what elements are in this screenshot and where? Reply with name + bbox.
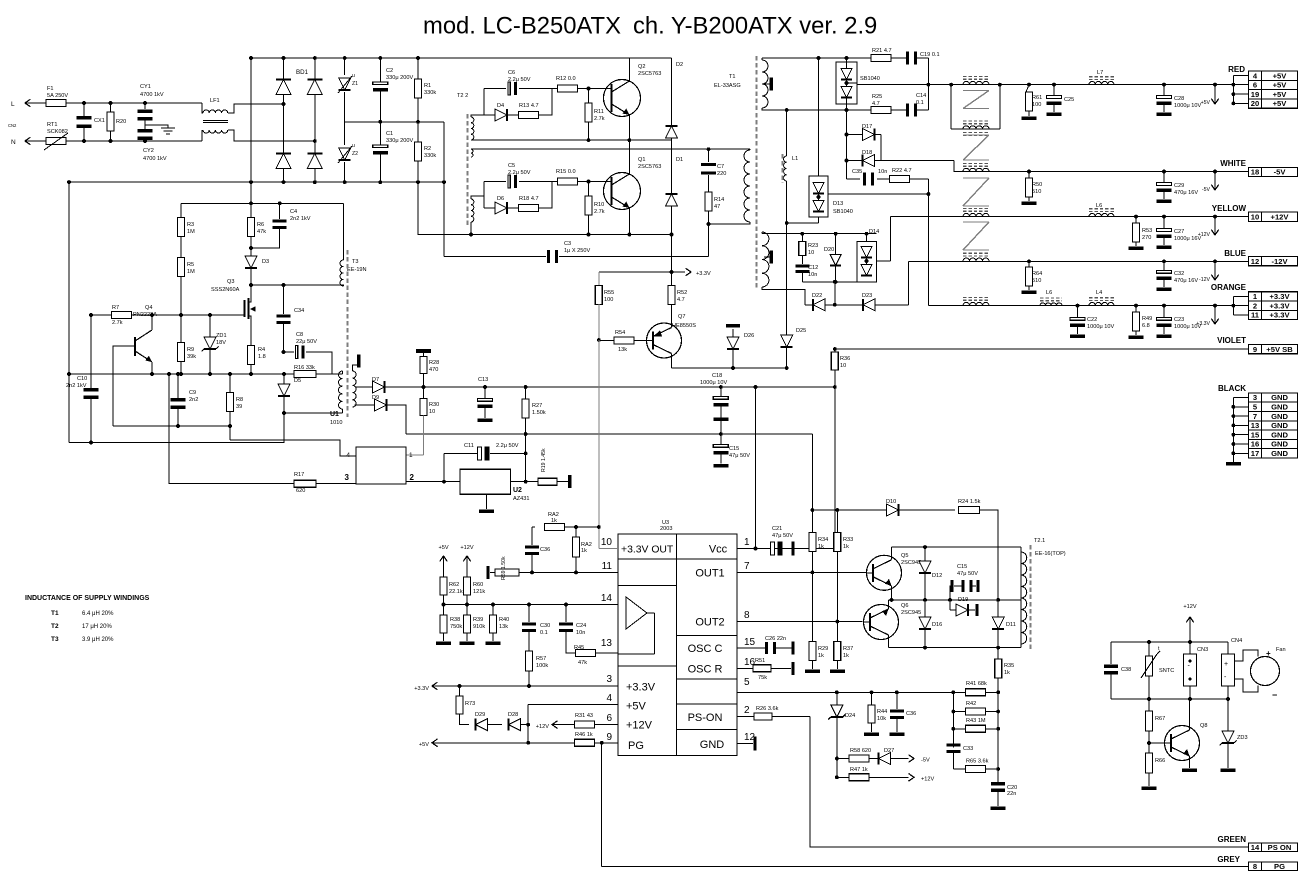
transformer T1 primary winding [744, 150, 750, 222]
svg-text:D4: D4 [497, 103, 504, 109]
svg-text:910k: 910k [473, 624, 485, 630]
svg-text:8: 8 [744, 610, 750, 621]
svg-text:22.1k: 22.1k [449, 589, 463, 595]
svg-text:6: 6 [606, 713, 612, 724]
svg-text:C21: C21 [772, 526, 782, 532]
svg-text:+3.3V: +3.3V [626, 682, 656, 694]
svg-text:Vcc: Vcc [709, 544, 728, 556]
diode D7 [373, 381, 385, 393]
svg-text:10: 10 [429, 409, 435, 415]
svg-text:C10: C10 [77, 376, 87, 382]
svg-text:1.50k: 1.50k [532, 410, 546, 416]
capacitor C15b [950, 580, 953, 592]
svg-text:0.1: 0.1 [916, 100, 924, 106]
svg-text:+3.3V: +3.3V [414, 686, 429, 692]
diode BD1 bottom-left [276, 154, 291, 169]
svg-text:+5V: +5V [438, 545, 448, 551]
resistor R24 [959, 507, 980, 514]
svg-text:PN2222A: PN2222A [133, 312, 157, 318]
core link Z1 [963, 90, 989, 92]
svg-text:L6: L6 [1096, 203, 1102, 209]
svg-text:D24: D24 [845, 713, 855, 719]
svg-text:2SC5763: 2SC5763 [638, 71, 661, 77]
svg-text:D10: D10 [886, 499, 896, 505]
wire fan bottom rail [1111, 698, 1228, 700]
wire PS-ON to green [810, 717, 1249, 847]
svg-text:T3: T3 [352, 259, 359, 265]
inductor L6b [1040, 303, 1062, 306]
svg-text:1M: 1M [187, 229, 195, 235]
wire Q5 emitter to mid rail [891, 586, 893, 600]
wire T1 sec top to rail [761, 58, 763, 60]
core link Z3 [963, 177, 989, 179]
svg-text:1k: 1k [1004, 670, 1010, 676]
diode D3 [245, 256, 257, 268]
capacitor C10 [90, 315, 92, 388]
core link Z4 [963, 221, 989, 223]
transformer T2.2 lower winding [471, 199, 474, 222]
capacitor C26 [737, 647, 765, 649]
svg-text:10: 10 [601, 537, 613, 548]
wire D13 bottom [818, 217, 820, 223]
capacitor C32 [1163, 261, 1165, 270]
svg-text:470μ 16V: 470μ 16V [1174, 278, 1198, 284]
arrow +12V ps-on [552, 721, 558, 729]
svg-text:9: 9 [1253, 345, 1257, 354]
svg-text:1k: 1k [581, 548, 587, 554]
capacitor C24 [565, 605, 567, 623]
svg-text:+12V: +12V [626, 720, 653, 732]
capacitor C18 [720, 387, 722, 396]
capacitor C6 [484, 88, 506, 90]
resistor R10 [587, 180, 591, 184]
svg-text:GND: GND [1271, 393, 1288, 402]
svg-text:C6: C6 [508, 70, 515, 76]
svg-text:R30: R30 [429, 402, 439, 408]
svg-text:2: 2 [744, 705, 750, 716]
svg-text:+5V: +5V [1273, 71, 1288, 80]
capacitor C23 [1163, 306, 1165, 317]
arrow +5V [1214, 85, 1216, 104]
wire C34 top [251, 284, 344, 286]
varistor Z2 [344, 122, 346, 145]
wire mid cap rail [345, 121, 444, 123]
svg-text:R40: R40 [499, 617, 509, 623]
arrow +3.3V in [432, 682, 438, 690]
svg-text:SB1040: SB1040 [860, 76, 880, 82]
svg-text:D9: D9 [372, 395, 379, 401]
capacitor C35 [847, 178, 861, 180]
svg-text:C11: C11 [464, 443, 474, 449]
ground bus terminal [1226, 462, 1241, 466]
varistor Z1 [344, 58, 346, 75]
zener ZD3 [1227, 699, 1229, 731]
resistor R59 [486, 566, 489, 579]
inductor L6 [1089, 213, 1114, 216]
resistor R34 [811, 510, 813, 533]
wire -5V rail [954, 161, 1248, 172]
svg-text:C30: C30 [540, 623, 550, 629]
svg-text:-12V: -12V [1271, 257, 1288, 266]
diode BD1 top-right [307, 80, 322, 95]
svg-text:1k: 1k [843, 544, 849, 550]
wire Q8 base [1149, 742, 1165, 744]
svg-text:3.9 μH 20%: 3.9 μH 20% [82, 637, 114, 643]
wire Q8 emitter [1189, 756, 1191, 768]
svg-text:+12V: +12V [1183, 604, 1196, 610]
diode D20 [835, 234, 837, 254]
diode D24 [836, 692, 838, 705]
svg-text:C28: C28 [1174, 96, 1184, 102]
inductor L7 [1089, 81, 1114, 84]
transformer T3 primary winding [342, 203, 344, 260]
wire C18 rail [460, 386, 835, 388]
svg-text:470: 470 [429, 367, 438, 373]
diode D6 [484, 207, 495, 209]
svg-text:CN3: CN3 [1197, 647, 1208, 653]
svg-text:R13 4.7: R13 4.7 [519, 103, 539, 109]
svg-text:R6: R6 [257, 222, 264, 228]
capacitor C14 [891, 109, 906, 111]
diode D28 [509, 719, 521, 731]
diode D5 [283, 374, 285, 384]
svg-text:R60: R60 [473, 582, 483, 588]
svg-text:C29: C29 [1174, 183, 1184, 189]
resistor R2 [417, 122, 419, 142]
svg-text:R62: R62 [449, 582, 459, 588]
svg-text:C4: C4 [290, 209, 297, 215]
wire T1 lower top [761, 232, 763, 234]
resistor R37 [836, 622, 838, 643]
svg-text:Z2: Z2 [352, 151, 358, 157]
T2 secondary winding +3.3V [963, 302, 989, 305]
arrow -5V sense [909, 755, 915, 763]
svg-text:1000μ 10V: 1000μ 10V [1174, 103, 1201, 109]
svg-text:3: 3 [345, 473, 350, 482]
svg-text:R33: R33 [843, 537, 853, 543]
svg-text:10n: 10n [878, 169, 887, 175]
wire pin9 PG / +5V [432, 742, 575, 744]
wire L [25, 102, 46, 104]
svg-text:F1: F1 [47, 86, 54, 92]
svg-text:R34: R34 [818, 537, 828, 543]
svg-text:Q4: Q4 [145, 305, 152, 311]
svg-text:BLACK: BLACK [1218, 384, 1246, 393]
svg-text:13k: 13k [499, 624, 508, 630]
svg-text:+3.3V: +3.3V [1269, 301, 1290, 310]
wire primary gnd rail [69, 373, 342, 375]
svg-text:EE-16(TOP): EE-16(TOP) [1035, 551, 1066, 557]
svg-text:R38: R38 [450, 617, 460, 623]
bridge right leg wire [314, 58, 316, 182]
svg-text:R4: R4 [258, 347, 265, 353]
svg-text:Q1: Q1 [638, 157, 645, 163]
wire HV bus vertical [250, 58, 252, 203]
svg-text:HE8550S: HE8550S [672, 323, 696, 329]
svg-text:R49: R49 [1142, 316, 1152, 322]
svg-text:C7: C7 [717, 164, 724, 170]
capacitor CY1 [144, 103, 146, 109]
resistor R7 [91, 314, 111, 316]
svg-text:Z1: Z1 [352, 81, 358, 87]
svg-text:R43 1M: R43 1M [966, 718, 986, 724]
svg-text:7: 7 [744, 561, 750, 572]
svg-text:C25: C25 [1064, 97, 1074, 103]
svg-text:D17: D17 [862, 124, 872, 130]
svg-text:100k: 100k [536, 663, 548, 669]
capacitor C5 [484, 181, 506, 183]
svg-text:11: 11 [602, 561, 613, 572]
svg-text:D6: D6 [497, 196, 504, 202]
capacitor C9 [177, 374, 179, 398]
resistor R62 [440, 577, 447, 595]
wire OUT1 pin7 [737, 571, 867, 573]
svg-text:OUT2: OUT2 [695, 617, 724, 629]
wire Q6 emitter [888, 635, 890, 648]
wire +5V rail [928, 84, 1248, 86]
resistor R8 [229, 374, 231, 393]
wire bottom rail [889, 647, 1022, 649]
svg-text:2SC945: 2SC945 [901, 560, 921, 566]
svg-text:R24 1.5k: R24 1.5k [958, 499, 981, 505]
svg-text:D11: D11 [1006, 622, 1016, 628]
arrow +12V sense [909, 773, 915, 781]
svg-text:R15 0.0: R15 0.0 [556, 169, 576, 175]
svg-text:2.2μ 50V: 2.2μ 50V [508, 77, 531, 83]
svg-text:D18: D18 [862, 150, 872, 156]
resistor R17 [294, 480, 316, 487]
svg-text:5A 250V: 5A 250V [47, 93, 68, 99]
resistor R5 [180, 236, 182, 258]
wire +5VSB rail VIOLET [835, 348, 1249, 350]
resistor R44 [871, 692, 873, 705]
wire grey [602, 865, 1249, 867]
resistor R25 [847, 109, 872, 111]
wire LF1 top [202, 103, 203, 113]
diode D26 terminal [726, 324, 740, 328]
wire D14 +12V branch [890, 217, 892, 261]
transistor Q5 [867, 555, 902, 590]
wire Vcc to C18 rail [755, 387, 757, 549]
wire Vcc pin1 [737, 548, 835, 550]
arrow +5V in [432, 739, 438, 747]
svg-text:C1: C1 [386, 131, 393, 137]
svg-text:R22 4.7: R22 4.7 [892, 168, 912, 174]
wire winding bottom rail [787, 222, 819, 224]
capacitor C4 [279, 203, 281, 219]
svg-text:U2: U2 [513, 487, 522, 494]
resistor R73 [459, 686, 461, 696]
svg-text:R50: R50 [1032, 182, 1042, 188]
T3 tap terminal [353, 365, 358, 371]
wire top rail +310V [251, 57, 672, 59]
svg-text:R44: R44 [877, 709, 887, 715]
resistor R29 [811, 572, 813, 642]
svg-text:620: 620 [296, 488, 305, 494]
resistor R45 [566, 632, 575, 653]
resistor R22 [890, 176, 910, 183]
svg-text:330k: 330k [424, 90, 436, 96]
svg-text:R23: R23 [808, 243, 818, 249]
svg-text:CY1: CY1 [140, 84, 151, 90]
svg-text:−: − [1272, 690, 1277, 700]
resistor R51 [737, 667, 753, 669]
capacitor C20 [991, 782, 1005, 785]
diode D2 [671, 58, 673, 126]
svg-text:2.7k: 2.7k [594, 209, 605, 215]
diode D11 [997, 600, 999, 617]
svg-text:Fan: Fan [1276, 647, 1286, 653]
svg-text:D23: D23 [862, 293, 872, 299]
svg-text:R36: R36 [840, 356, 850, 362]
svg-text:R52: R52 [677, 290, 687, 296]
resistor R41 [953, 691, 966, 693]
svg-text:+3.3V: +3.3V [1196, 321, 1210, 327]
wire bottom return rail [419, 234, 671, 236]
arrow -12V [1214, 261, 1216, 280]
svg-text:LF1: LF1 [210, 98, 220, 104]
svg-text:R39: R39 [473, 617, 483, 623]
svg-text:13: 13 [1251, 421, 1259, 430]
svg-text:R25: R25 [872, 94, 882, 100]
svg-text:GND: GND [1271, 421, 1288, 430]
svg-text:1k: 1k [818, 653, 824, 659]
svg-text:+5V: +5V [626, 701, 647, 713]
resistor RA2 a [532, 526, 535, 528]
svg-text:PG: PG [1274, 862, 1285, 871]
transformer T2.1 winding [1020, 547, 1022, 648]
resistor R38 [443, 605, 445, 616]
wire right bus stack [997, 692, 999, 782]
svg-text:R9: R9 [187, 347, 194, 353]
wire left bus stack [952, 692, 954, 747]
svg-text:75k: 75k [758, 675, 767, 681]
svg-text:C32: C32 [1174, 271, 1184, 277]
svg-text:R10: R10 [594, 202, 604, 208]
svg-text:U1: U1 [330, 411, 339, 418]
svg-text:R45: R45 [574, 645, 584, 651]
svg-text:D3: D3 [262, 259, 269, 265]
svg-text:1k: 1k [843, 653, 849, 659]
resistor R28 terminal [416, 349, 431, 353]
svg-text:R61: R61 [1032, 95, 1042, 101]
capacitor C19 [891, 57, 906, 59]
svg-text:D26: D26 [744, 333, 754, 339]
diode D1 [671, 140, 673, 194]
svg-text:+: + [1224, 661, 1228, 668]
resistor R3 [180, 203, 182, 218]
resistor R65 [953, 768, 966, 770]
rectifier D13 SB1040 [809, 176, 828, 217]
fuse F1 [46, 100, 66, 107]
svg-text:R59 1.50k: R59 1.50k [501, 556, 507, 580]
resistor R31 [552, 724, 575, 726]
wire GND bus [1232, 398, 1234, 463]
svg-text:C8: C8 [296, 332, 303, 338]
svg-text:R21 4.7: R21 4.7 [872, 48, 892, 54]
capacitor C33 [946, 744, 960, 747]
svg-text:R14: R14 [714, 197, 724, 203]
svg-text:C14: C14 [916, 93, 926, 99]
wire C3 column [443, 122, 445, 257]
svg-text:PS-ON: PS-ON [688, 712, 723, 724]
svg-text:GREEN: GREEN [1218, 835, 1247, 844]
resistor R18 [507, 207, 518, 209]
wire T2.2 top loop [471, 115, 484, 117]
svg-text:330μ 200V: 330μ 200V [386, 75, 413, 81]
svg-text:L7: L7 [1097, 70, 1103, 76]
wire D5 bottom [284, 412, 342, 414]
svg-text:Q2: Q2 [638, 64, 645, 70]
svg-text:R20: R20 [116, 119, 126, 125]
diode D16 [924, 600, 926, 617]
wire pin5 [737, 691, 998, 693]
svg-text:D20: D20 [824, 247, 834, 253]
rectifier D14 [857, 242, 876, 282]
diode D23 [863, 299, 875, 311]
svg-text:D16: D16 [932, 622, 942, 628]
svg-text:EL-33ASG: EL-33ASG [714, 83, 741, 89]
svg-text:2n2: 2n2 [189, 397, 198, 403]
transistor Q6 [864, 605, 899, 640]
svg-text:4700 1kV: 4700 1kV [143, 156, 167, 162]
svg-text:10: 10 [808, 250, 814, 256]
wire Q5 collector rail [891, 547, 893, 559]
svg-text:510: 510 [1032, 278, 1041, 284]
svg-text:-5V: -5V [1274, 168, 1287, 177]
resistor R1 [417, 58, 419, 79]
transformer T3 right winding [353, 371, 357, 407]
svg-text:1M: 1M [187, 269, 195, 275]
svg-text:+12V: +12V [536, 724, 549, 730]
svg-text:YELLOW: YELLOW [1212, 204, 1247, 213]
resistor R55 [598, 272, 600, 286]
svg-text:7: 7 [1253, 412, 1257, 421]
svg-text:N: N [11, 139, 16, 146]
capacitor C28 [1163, 85, 1165, 95]
diode D19 [950, 609, 956, 611]
wire U1 pin1 lead [406, 454, 424, 456]
T2 secondary winding +12V [963, 213, 989, 216]
svg-text:D27: D27 [884, 748, 894, 754]
svg-text:47: 47 [714, 204, 720, 210]
svg-text:121k: 121k [473, 589, 485, 595]
wire D23 to -12V line [907, 261, 909, 305]
wire U2 output [511, 481, 539, 483]
svg-text:RED: RED [1228, 65, 1245, 74]
svg-text:13k: 13k [618, 347, 627, 353]
inductor L4 [1089, 302, 1114, 305]
svg-text:C27: C27 [1174, 229, 1184, 235]
wire R2 to bottom rail [418, 182, 419, 234]
svg-text:2.7k: 2.7k [594, 116, 605, 122]
wire D17 to D18 [880, 135, 882, 161]
resistor R52 [671, 272, 673, 286]
wire pin14 net [444, 604, 619, 606]
svg-text:750k: 750k [450, 624, 462, 630]
T2 secondary winding -12V [963, 258, 989, 261]
transformer T1 core [756, 56, 758, 290]
svg-text:C22: C22 [1087, 317, 1097, 323]
resistor R50 [1028, 172, 1030, 179]
svg-text:C35: C35 [852, 169, 862, 175]
resistor R26 [737, 716, 754, 718]
svg-text:2SC945: 2SC945 [901, 610, 921, 616]
capacitor CX1 [83, 103, 85, 116]
svg-text:GND: GND [1271, 449, 1288, 458]
wire T3 right to D9 [355, 404, 375, 406]
svg-text:220: 220 [717, 171, 726, 177]
